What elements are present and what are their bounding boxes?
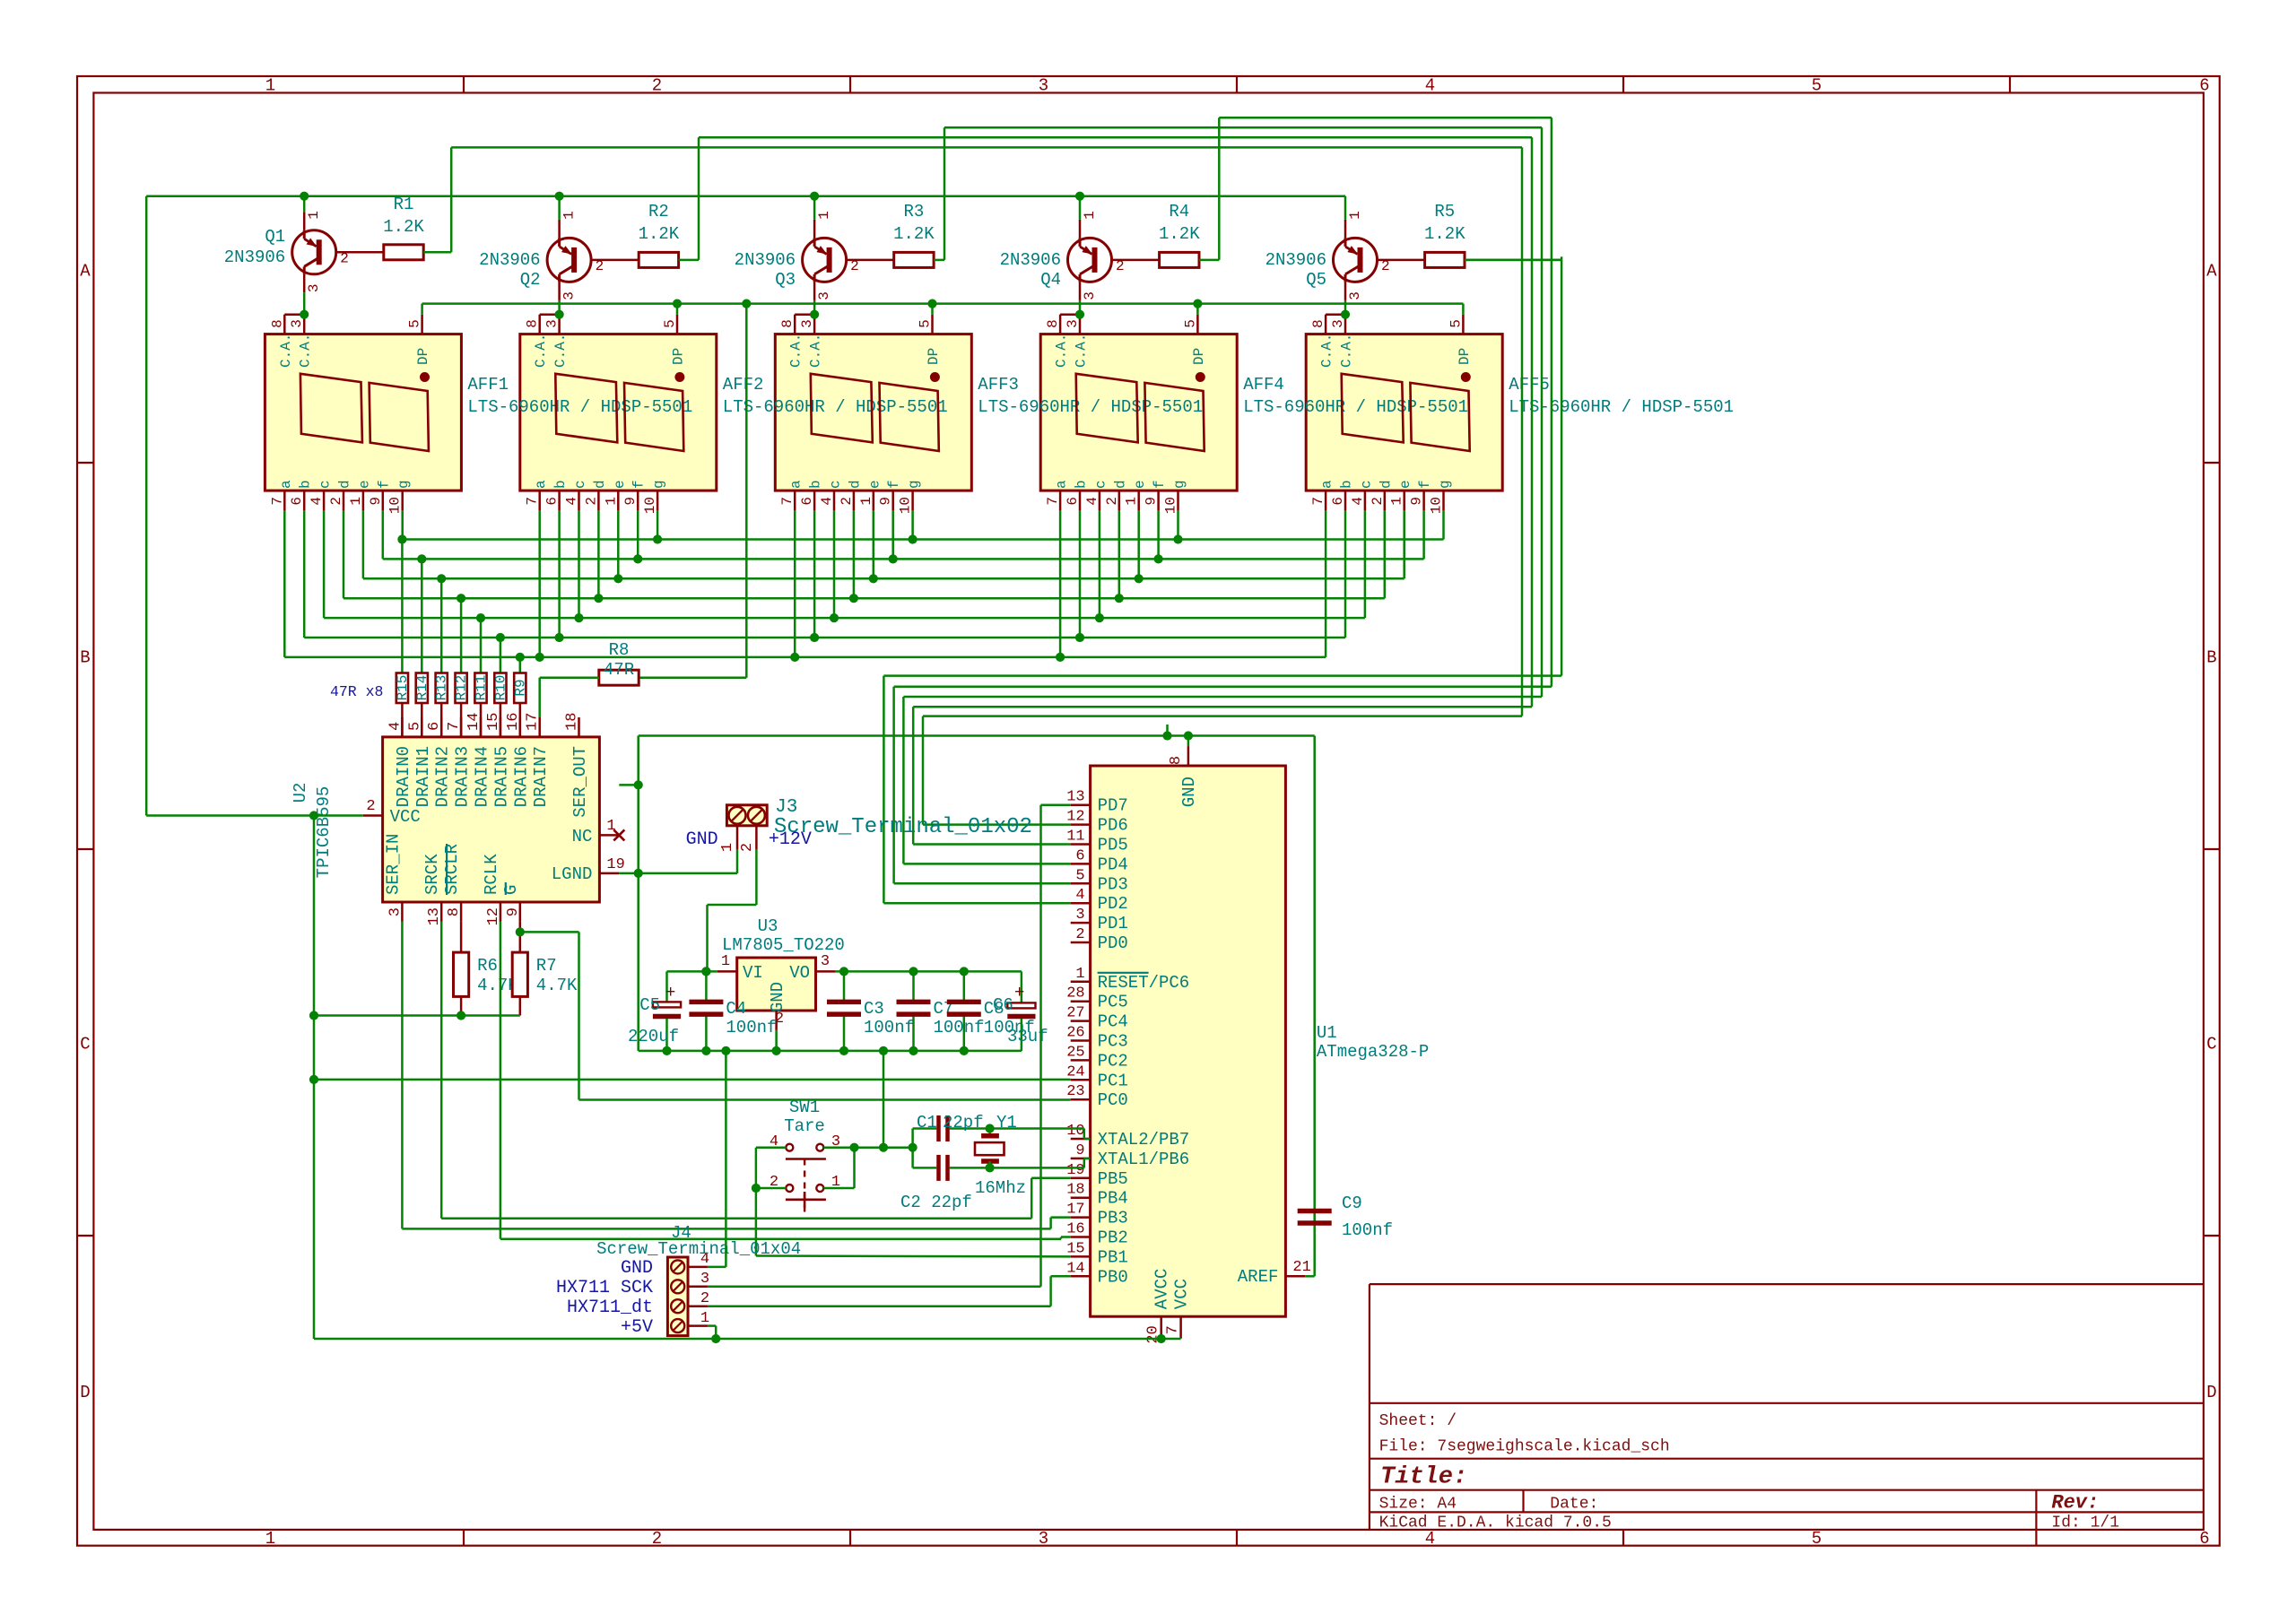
- svg-text:c: c: [572, 480, 588, 489]
- svg-text:15: 15: [1066, 1240, 1084, 1257]
- svg-text:R3: R3: [903, 202, 924, 221]
- svg-text:10: 10: [1429, 497, 1445, 514]
- svg-text:C1: C1: [917, 1113, 937, 1133]
- svg-text:8: 8: [269, 319, 285, 328]
- svg-text:SER_OUT: SER_OUT: [570, 746, 590, 818]
- svg-text:2N3906: 2N3906: [479, 250, 540, 270]
- svg-text:DRAIN2: DRAIN2: [433, 746, 453, 807]
- svg-text:Screw_Terminal_01x02: Screw_Terminal_01x02: [774, 815, 1032, 839]
- svg-text:1: 1: [348, 497, 364, 506]
- svg-text:10: 10: [387, 497, 404, 514]
- svg-text:10: 10: [1163, 497, 1179, 514]
- svg-text:100nf: 100nf: [864, 1018, 915, 1037]
- svg-text:PC4: PC4: [1098, 1012, 1128, 1032]
- svg-text:f: f: [1417, 480, 1433, 489]
- svg-text:f: f: [376, 480, 392, 489]
- svg-text:9: 9: [1144, 497, 1160, 506]
- svg-text:1: 1: [700, 1310, 709, 1327]
- svg-text:LM7805_TO220: LM7805_TO220: [722, 935, 845, 955]
- svg-text:C.A.: C.A.: [278, 334, 294, 368]
- svg-text:PD7: PD7: [1098, 796, 1128, 816]
- svg-text:b: b: [808, 480, 824, 489]
- svg-text:R14: R14: [414, 675, 430, 701]
- svg-text:AFF2: AFF2: [723, 375, 764, 395]
- svg-text:DP: DP: [1191, 348, 1207, 365]
- svg-text:25: 25: [1066, 1044, 1084, 1061]
- svg-text:f: f: [1152, 480, 1168, 489]
- svg-text:4: 4: [1425, 76, 1435, 96]
- svg-text:KiCad E.D.A. kicad 7.0.5: KiCad E.D.A. kicad 7.0.5: [1379, 1515, 1612, 1532]
- svg-text:5: 5: [1812, 76, 1822, 96]
- svg-text:c: c: [1092, 480, 1109, 489]
- svg-text:7: 7: [1165, 1325, 1182, 1334]
- svg-text:5: 5: [918, 319, 934, 328]
- svg-text:12: 12: [1066, 809, 1084, 826]
- svg-text:Q5: Q5: [1306, 270, 1326, 290]
- svg-text:d: d: [1378, 480, 1394, 489]
- svg-text:C.A.: C.A.: [1339, 334, 1355, 368]
- svg-text:C3: C3: [864, 999, 884, 1019]
- svg-text:27: 27: [1066, 1005, 1084, 1022]
- svg-text:47R: 47R: [604, 660, 634, 680]
- svg-text:15: 15: [485, 713, 502, 731]
- svg-text:3: 3: [561, 291, 578, 300]
- svg-text:6: 6: [2199, 76, 2209, 96]
- svg-text:XTAL2/PB7: XTAL2/PB7: [1098, 1130, 1190, 1150]
- svg-text:3: 3: [306, 283, 322, 292]
- svg-text:PB5: PB5: [1098, 1169, 1128, 1189]
- svg-text:R13: R13: [434, 675, 450, 701]
- svg-text:Q1: Q1: [265, 227, 285, 247]
- svg-text:16: 16: [505, 713, 522, 731]
- svg-text:1: 1: [561, 211, 578, 220]
- svg-text:GND: GND: [686, 829, 718, 850]
- svg-text:R9: R9: [512, 679, 528, 696]
- svg-text:PD4: PD4: [1098, 855, 1128, 874]
- svg-text:R8: R8: [609, 640, 630, 660]
- svg-text:26: 26: [1066, 1025, 1084, 1042]
- svg-text:R10: R10: [492, 675, 509, 701]
- svg-text:10: 10: [898, 497, 914, 514]
- svg-text:LTS-6960HR / HDSP-5501: LTS-6960HR / HDSP-5501: [978, 397, 1203, 417]
- svg-text:b: b: [1339, 480, 1355, 489]
- svg-text:LGND: LGND: [552, 864, 593, 884]
- svg-text:R1: R1: [394, 195, 414, 214]
- svg-text:100nf: 100nf: [934, 1018, 985, 1037]
- svg-text:6: 6: [544, 497, 561, 506]
- svg-text:C9: C9: [1342, 1193, 1362, 1213]
- svg-text:3: 3: [1039, 1529, 1048, 1549]
- svg-text:9: 9: [368, 497, 384, 506]
- svg-text:e: e: [612, 480, 628, 489]
- svg-text:47R x8: 47R x8: [330, 683, 383, 700]
- svg-text:DRAIN7: DRAIN7: [531, 746, 551, 807]
- svg-text:SW1: SW1: [789, 1098, 820, 1117]
- svg-text:2: 2: [839, 497, 855, 506]
- svg-text:10: 10: [642, 497, 658, 514]
- svg-text:C.A.: C.A.: [298, 334, 314, 368]
- svg-text:17: 17: [1066, 1202, 1084, 1219]
- svg-text:1.2K: 1.2K: [1159, 224, 1200, 244]
- svg-text:GND: GND: [621, 1258, 653, 1279]
- svg-text:5: 5: [406, 722, 423, 731]
- svg-text:PC0: PC0: [1098, 1090, 1128, 1110]
- svg-text:8: 8: [1168, 756, 1185, 765]
- svg-text:DRAIN6: DRAIN6: [511, 746, 531, 807]
- svg-text:Id: 1/1: Id: 1/1: [2051, 1515, 2119, 1532]
- svg-text:DP: DP: [1457, 348, 1473, 365]
- svg-text:b: b: [1074, 480, 1090, 489]
- svg-text:DRAIN3: DRAIN3: [453, 746, 473, 807]
- svg-text:PC3: PC3: [1098, 1032, 1128, 1052]
- svg-text:PB3: PB3: [1098, 1209, 1128, 1228]
- svg-text:C: C: [80, 1035, 90, 1055]
- svg-text:8: 8: [779, 319, 796, 328]
- svg-text:C.A.: C.A.: [1074, 334, 1090, 368]
- svg-text:C.A.: C.A.: [788, 334, 804, 368]
- svg-text:8: 8: [525, 319, 541, 328]
- svg-text:16: 16: [1066, 1221, 1084, 1238]
- svg-text:7: 7: [525, 497, 541, 506]
- svg-text:VCC: VCC: [390, 807, 421, 827]
- svg-text:U2: U2: [291, 783, 310, 803]
- svg-text:Date:: Date:: [1550, 1496, 1598, 1514]
- svg-text:21: 21: [1292, 1259, 1310, 1276]
- svg-text:c: c: [317, 480, 334, 489]
- svg-text:DRAIN4: DRAIN4: [473, 746, 492, 807]
- svg-text:2: 2: [652, 1529, 662, 1549]
- svg-text:AREF: AREF: [1238, 1267, 1279, 1287]
- svg-text:2: 2: [596, 258, 604, 274]
- svg-text:2: 2: [700, 1290, 709, 1307]
- svg-text:5: 5: [1075, 867, 1084, 884]
- svg-text:File: 7segweighscale.kicad_sch: File: 7segweighscale.kicad_sch: [1379, 1438, 1670, 1456]
- svg-text:1: 1: [1389, 497, 1405, 506]
- svg-text:9: 9: [1409, 497, 1425, 506]
- svg-text:4.7K: 4.7K: [536, 976, 578, 995]
- svg-text:ATmega328-P: ATmega328-P: [1317, 1042, 1429, 1062]
- svg-text:b: b: [298, 480, 314, 489]
- svg-text:2N3906: 2N3906: [1265, 250, 1326, 270]
- svg-text:C.A.: C.A.: [1054, 334, 1070, 368]
- svg-text:PB0: PB0: [1098, 1267, 1128, 1287]
- svg-text:AFF3: AFF3: [978, 375, 1019, 395]
- svg-text:C2 22pf: C2 22pf: [900, 1193, 972, 1212]
- svg-text:4: 4: [387, 722, 404, 731]
- svg-text:g: g: [1171, 480, 1187, 489]
- svg-text:5: 5: [1812, 1529, 1822, 1549]
- svg-text:33uf: 33uf: [1007, 1027, 1048, 1046]
- svg-text:6: 6: [799, 497, 815, 506]
- svg-text:U1: U1: [1317, 1023, 1337, 1043]
- svg-text:C.A.: C.A.: [1319, 334, 1335, 368]
- svg-text:LTS-6960HR / HDSP-5501: LTS-6960HR / HDSP-5501: [467, 397, 692, 417]
- svg-text:1: 1: [858, 497, 874, 506]
- svg-text:2: 2: [1075, 926, 1084, 943]
- svg-text:a: a: [1054, 480, 1070, 489]
- svg-text:3: 3: [1082, 291, 1098, 300]
- svg-text:3: 3: [544, 319, 561, 328]
- svg-text:220uf: 220uf: [628, 1027, 679, 1046]
- svg-text:+: +: [1014, 983, 1024, 1002]
- svg-text:R12: R12: [454, 675, 470, 701]
- svg-text:9: 9: [1075, 1142, 1084, 1159]
- svg-text:6: 6: [1330, 497, 1346, 506]
- svg-text:R5: R5: [1434, 202, 1455, 221]
- svg-text:8: 8: [1045, 319, 1061, 328]
- svg-text:RCLK: RCLK: [482, 854, 501, 895]
- svg-text:D: D: [80, 1383, 90, 1402]
- svg-text:8: 8: [1310, 319, 1326, 328]
- svg-text:DRAIN1: DRAIN1: [413, 746, 433, 807]
- svg-text:16Mhz: 16Mhz: [975, 1178, 1026, 1198]
- svg-text:Screw_Terminal_01x04: Screw_Terminal_01x04: [596, 1239, 801, 1259]
- svg-text:5: 5: [1182, 319, 1198, 328]
- svg-text:DP: DP: [926, 348, 942, 365]
- svg-text:9: 9: [622, 497, 639, 506]
- svg-text:DP: DP: [671, 348, 687, 365]
- svg-text:a: a: [1319, 480, 1335, 489]
- svg-text:LTS-6960HR / HDSP-5501: LTS-6960HR / HDSP-5501: [1243, 397, 1468, 417]
- svg-text:2: 2: [328, 497, 344, 506]
- svg-text:f: f: [631, 480, 648, 489]
- svg-text:PB1: PB1: [1098, 1247, 1128, 1267]
- svg-text:4: 4: [1075, 887, 1084, 904]
- svg-text:R7: R7: [536, 956, 557, 976]
- svg-text:b: b: [552, 480, 569, 489]
- svg-text:PC1: PC1: [1098, 1071, 1128, 1090]
- svg-text:g: g: [396, 480, 412, 489]
- svg-text:3: 3: [799, 319, 815, 328]
- svg-text:1: 1: [306, 211, 322, 220]
- svg-text:4: 4: [1350, 497, 1366, 506]
- svg-text:3: 3: [821, 953, 830, 970]
- svg-text:18: 18: [1066, 1182, 1084, 1199]
- svg-text:a: a: [278, 480, 294, 489]
- svg-text:6: 6: [1065, 497, 1081, 506]
- svg-text:2: 2: [739, 843, 756, 852]
- svg-text:23: 23: [1066, 1083, 1084, 1100]
- svg-text:GND: GND: [1179, 777, 1199, 807]
- svg-text:A: A: [2206, 262, 2217, 282]
- svg-text:Y1: Y1: [996, 1113, 1017, 1133]
- svg-text:6: 6: [289, 497, 305, 506]
- svg-text:3: 3: [1075, 907, 1084, 924]
- svg-text:1: 1: [1075, 966, 1084, 983]
- svg-text:R4: R4: [1169, 202, 1189, 221]
- svg-text:3: 3: [700, 1271, 709, 1288]
- svg-text:100nf: 100nf: [1342, 1220, 1393, 1240]
- svg-text:+5V: +5V: [621, 1317, 653, 1338]
- svg-text:5: 5: [407, 319, 423, 328]
- svg-text:3: 3: [816, 291, 832, 300]
- svg-text:14: 14: [1066, 1260, 1084, 1277]
- svg-text:2N3906: 2N3906: [224, 247, 285, 267]
- svg-text:1: 1: [603, 497, 619, 506]
- svg-text:R15: R15: [395, 675, 411, 701]
- svg-text:2: 2: [1381, 258, 1390, 274]
- svg-text:18: 18: [564, 713, 581, 731]
- svg-text:d: d: [847, 480, 863, 489]
- svg-text:2: 2: [1116, 258, 1125, 274]
- svg-text:SER_IN: SER_IN: [383, 834, 403, 895]
- svg-text:1: 1: [721, 953, 730, 970]
- svg-text:VI: VI: [743, 963, 763, 983]
- svg-text:G: G: [501, 885, 521, 895]
- svg-text:D: D: [2206, 1383, 2216, 1402]
- svg-text:100nf: 100nf: [726, 1018, 777, 1037]
- svg-text:C.A.: C.A.: [552, 334, 569, 368]
- svg-text:14: 14: [465, 713, 483, 731]
- svg-text:AFF4: AFF4: [1243, 375, 1284, 395]
- svg-text:Tare: Tare: [784, 1116, 825, 1136]
- svg-text:7: 7: [446, 722, 463, 731]
- svg-text:1.2K: 1.2K: [893, 224, 935, 244]
- svg-text:Title:: Title:: [1380, 1464, 1467, 1491]
- svg-text:PD5: PD5: [1098, 836, 1128, 855]
- svg-text:Q4: Q4: [1040, 270, 1061, 290]
- svg-text:3: 3: [289, 319, 305, 328]
- svg-text:RESET/PC6: RESET/PC6: [1098, 973, 1190, 993]
- svg-text:7: 7: [269, 497, 285, 506]
- svg-text:a: a: [788, 480, 804, 489]
- svg-text:10: 10: [1066, 1123, 1084, 1140]
- svg-text:g: g: [1437, 480, 1453, 489]
- svg-text:PD3: PD3: [1098, 874, 1128, 894]
- svg-text:A: A: [80, 262, 91, 282]
- svg-text:PC5: PC5: [1098, 993, 1128, 1012]
- svg-text:Q3: Q3: [775, 270, 796, 290]
- svg-text:PB4: PB4: [1098, 1189, 1128, 1209]
- svg-text:7: 7: [1310, 497, 1326, 506]
- svg-text:PD1: PD1: [1098, 914, 1128, 933]
- svg-text:e: e: [866, 480, 883, 489]
- svg-text:XTAL1/PB6: XTAL1/PB6: [1098, 1150, 1190, 1169]
- svg-text:e: e: [1132, 480, 1148, 489]
- svg-text:3: 3: [387, 907, 404, 916]
- svg-text:PC2: PC2: [1098, 1051, 1128, 1071]
- svg-text:VO: VO: [789, 963, 810, 983]
- svg-text:Rev:: Rev:: [2051, 1492, 2099, 1515]
- svg-text:9: 9: [878, 497, 894, 506]
- svg-text:1: 1: [265, 76, 275, 96]
- svg-text:GND: GND: [768, 982, 787, 1012]
- svg-text:VCC: VCC: [1172, 1279, 1192, 1309]
- svg-text:3: 3: [1347, 291, 1363, 300]
- svg-text:5: 5: [662, 319, 678, 328]
- svg-text:1.2K: 1.2K: [639, 224, 680, 244]
- svg-text:DRAIN0: DRAIN0: [394, 746, 413, 807]
- svg-text:SRCLR: SRCLR: [442, 844, 462, 895]
- svg-text:1: 1: [719, 843, 736, 852]
- svg-text:d: d: [1112, 480, 1128, 489]
- svg-text:4: 4: [564, 497, 580, 506]
- svg-text:PD6: PD6: [1098, 816, 1128, 836]
- svg-text:7: 7: [1045, 497, 1061, 506]
- svg-text:Sheet: /: Sheet: /: [1379, 1412, 1457, 1430]
- svg-text:PB2: PB2: [1098, 1228, 1128, 1248]
- svg-text:C: C: [2206, 1035, 2216, 1055]
- svg-text:SRCK: SRCK: [422, 854, 442, 895]
- svg-text:PD2: PD2: [1098, 894, 1128, 914]
- svg-text:3: 3: [1065, 319, 1081, 328]
- svg-text:1.2K: 1.2K: [1424, 224, 1465, 244]
- svg-text:DRAIN5: DRAIN5: [491, 746, 511, 807]
- svg-text:NC: NC: [572, 827, 593, 846]
- svg-text:R6: R6: [477, 956, 498, 976]
- svg-text:1: 1: [1124, 497, 1140, 506]
- svg-text:13: 13: [1066, 789, 1084, 806]
- svg-text:Q2: Q2: [520, 270, 541, 290]
- svg-text:2: 2: [652, 76, 662, 96]
- svg-text:11: 11: [1066, 829, 1084, 846]
- svg-text:22pf: 22pf: [943, 1113, 984, 1133]
- svg-text:1: 1: [265, 1529, 275, 1549]
- svg-text:c: c: [1358, 480, 1374, 489]
- svg-text:e: e: [1397, 480, 1413, 489]
- svg-text:4: 4: [309, 497, 325, 506]
- svg-text:1.2K: 1.2K: [383, 217, 424, 237]
- svg-text:24: 24: [1066, 1063, 1084, 1081]
- svg-text:+: +: [665, 983, 675, 1002]
- svg-text:4: 4: [819, 497, 835, 506]
- svg-text:U3: U3: [758, 916, 778, 936]
- svg-text:1: 1: [816, 211, 832, 220]
- svg-text:g: g: [906, 480, 922, 489]
- svg-text:C5: C5: [639, 995, 660, 1015]
- svg-text:DP: DP: [415, 348, 431, 365]
- svg-text:2N3906: 2N3906: [1000, 250, 1061, 270]
- svg-text:5: 5: [1448, 319, 1464, 328]
- svg-text:2: 2: [583, 497, 599, 506]
- svg-text:1: 1: [606, 818, 615, 835]
- svg-text:6: 6: [2199, 1529, 2209, 1549]
- svg-text:17: 17: [525, 713, 542, 731]
- svg-text:B: B: [80, 648, 90, 668]
- svg-text:f: f: [886, 480, 902, 489]
- svg-text:1: 1: [1347, 211, 1363, 220]
- svg-text:7: 7: [779, 497, 796, 506]
- svg-text:2: 2: [1104, 497, 1120, 506]
- svg-text:g: g: [651, 480, 667, 489]
- svg-text:3: 3: [1039, 76, 1048, 96]
- svg-text:2: 2: [366, 798, 375, 815]
- svg-text:R2: R2: [648, 202, 669, 221]
- svg-text:TPIC6B595: TPIC6B595: [314, 786, 334, 879]
- svg-text:B: B: [2206, 648, 2216, 668]
- svg-text:8: 8: [446, 907, 463, 916]
- svg-text:d: d: [592, 480, 608, 489]
- svg-text:C.A.: C.A.: [808, 334, 824, 368]
- svg-text:d: d: [337, 480, 353, 489]
- svg-text:c: c: [828, 480, 844, 489]
- svg-text:e: e: [356, 480, 372, 489]
- svg-text:HX711 SCK: HX711 SCK: [556, 1278, 653, 1298]
- svg-text:1: 1: [1082, 211, 1098, 220]
- svg-text:2N3906: 2N3906: [735, 250, 796, 270]
- svg-text:AFF1: AFF1: [467, 375, 509, 395]
- svg-text:PD0: PD0: [1098, 933, 1128, 953]
- svg-text:C.A.: C.A.: [533, 334, 549, 368]
- svg-text:3: 3: [1330, 319, 1346, 328]
- svg-text:HX711_dt: HX711_dt: [567, 1298, 653, 1318]
- svg-text:6: 6: [426, 722, 443, 731]
- svg-text:+12V: +12V: [769, 829, 812, 850]
- svg-text:2: 2: [1370, 497, 1386, 506]
- svg-text:19: 19: [1066, 1162, 1084, 1179]
- svg-text:a: a: [533, 480, 549, 489]
- svg-text:AFF5: AFF5: [1509, 375, 1550, 395]
